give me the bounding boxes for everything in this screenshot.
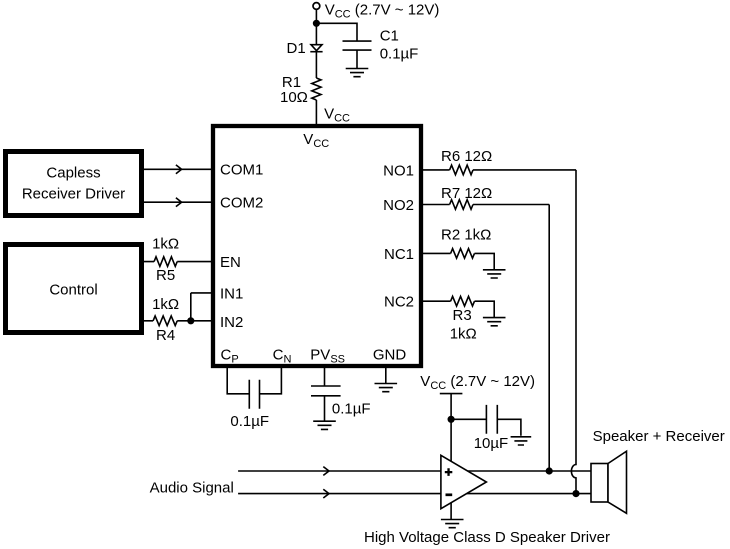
svg-text:NC2: NC2 [384,294,414,311]
wire NO2 with resistor R7 [421,204,549,206]
ground for amp [441,520,464,528]
ground for C1 [346,69,369,77]
svg-text:R4: R4 [156,327,175,344]
ground for GND pin [375,384,398,392]
wire audio lower line to speaker [238,493,591,495]
svg-text:0.1µF: 0.1µF [380,45,419,62]
capacitor PVSS bypass [311,386,341,396]
wire COM2 [144,201,211,203]
svg-text:1kΩ: 1kΩ [152,236,179,253]
wire audio upper line to speaker [238,470,591,472]
svg-text:COM1: COM1 [220,162,263,179]
svg-text:Receiver Driver: Receiver Driver [22,186,125,203]
wire NC2 with resistor R3 [421,301,494,317]
wire IN1 stub [191,292,211,294]
node NO1 to lower output dot [573,491,579,497]
svg-text:NO1: NO1 [383,162,414,179]
node NO2 to upper output dot [546,468,552,474]
wire PVSS pin down [324,366,326,386]
svg-text:D1: D1 [287,40,306,57]
wire COM1 [144,168,211,170]
svg-text:0.1µF: 0.1µF [230,413,269,430]
IC box U1 [213,126,421,366]
svg-text:Speaker + Receiver: Speaker + Receiver [593,428,725,445]
wire EN with resistor R5 [144,261,211,263]
svg-text:VCC (2.7V ~ 12V): VCC (2.7V ~ 12V) [325,2,440,21]
wire VCC bar down through amp to ground [450,394,452,520]
speaker horn [608,451,627,513]
svg-text:IN1: IN1 [220,285,243,302]
svg-text:C1: C1 [380,28,399,45]
wire CP pin down [227,366,249,394]
svg-text:NC1: NC1 [384,246,414,263]
svg-text:NO2: NO2 [383,197,414,214]
label minus input [446,493,453,496]
ground for 10uF [511,437,532,445]
ground for PVSS cap [313,421,336,429]
wire NO1 vertical down with hop [571,170,576,494]
ground for R2 [483,270,506,278]
box Control [6,245,142,333]
wire GND pin down [385,366,387,383]
svg-text:R6 12Ω: R6 12Ω [441,148,492,165]
supply bar VCC amp [440,393,463,395]
wire NO2 vertical down [548,205,550,472]
svg-text:1kΩ: 1kΩ [450,325,477,342]
node VCC amp junction dot [448,417,454,423]
wire D1 to R1 [315,52,317,78]
svg-text:R3: R3 [453,307,472,324]
svg-text:VCC (2.7V ~ 12V): VCC (2.7V ~ 12V) [420,373,535,392]
capacitor C1 [343,41,372,50]
svg-text:R7 12Ω: R7 12Ω [441,185,492,202]
capacitor 10uF [486,405,497,434]
wire to 10uF cap [451,418,486,420]
svg-text:COM2: COM2 [220,195,263,212]
svg-text:VCC: VCC [324,106,350,125]
box Capless Receiver Driver [6,152,142,216]
wire NO1 with resistor R6 [421,169,576,171]
svg-text:Capless: Capless [46,165,100,182]
svg-text:IN2: IN2 [220,314,243,331]
wire VCC supply stem [315,9,317,45]
svg-text:R2 1kΩ: R2 1kΩ [441,226,491,243]
svg-text:High Voltage Class D Speaker D: High Voltage Class D Speaker Driver [364,529,610,546]
ground for R3 [483,318,506,326]
node IN2 junction dot [188,318,194,324]
wire PVSS cap to ground [324,396,326,421]
node VCC junction dot [314,21,320,27]
svg-text:GND: GND [373,347,407,364]
wire NC1 with resistor R2 [421,253,494,269]
wire C1 to ground [356,50,358,68]
label plus input [445,468,453,476]
wire 10uF to ground [497,419,521,436]
terminal VCC open circle [313,3,320,10]
wire R1 to IC [315,100,317,124]
wire IN2 with resistor R4 [144,320,211,322]
svg-text:1kΩ: 1kΩ [152,296,179,313]
capacitor flying cap CP-CN [249,380,259,409]
op-amp class D driver triangle [441,455,487,508]
svg-text:Audio Signal: Audio Signal [150,480,234,497]
wire to C1 [316,23,357,41]
svg-text:0.1µF: 0.1µF [332,401,371,418]
resistor R1 [312,78,321,100]
speaker driver rectangle [591,464,608,503]
svg-text:EN: EN [220,254,241,271]
svg-text:R5: R5 [156,267,175,284]
wire IN1 to IN2 vertical [190,293,192,321]
svg-text:10Ω: 10Ω [280,89,308,106]
diode D1 [311,45,322,51]
wire CN pin down [260,366,282,394]
svg-text:Control: Control [49,282,97,299]
svg-text:10µF: 10µF [474,435,509,452]
